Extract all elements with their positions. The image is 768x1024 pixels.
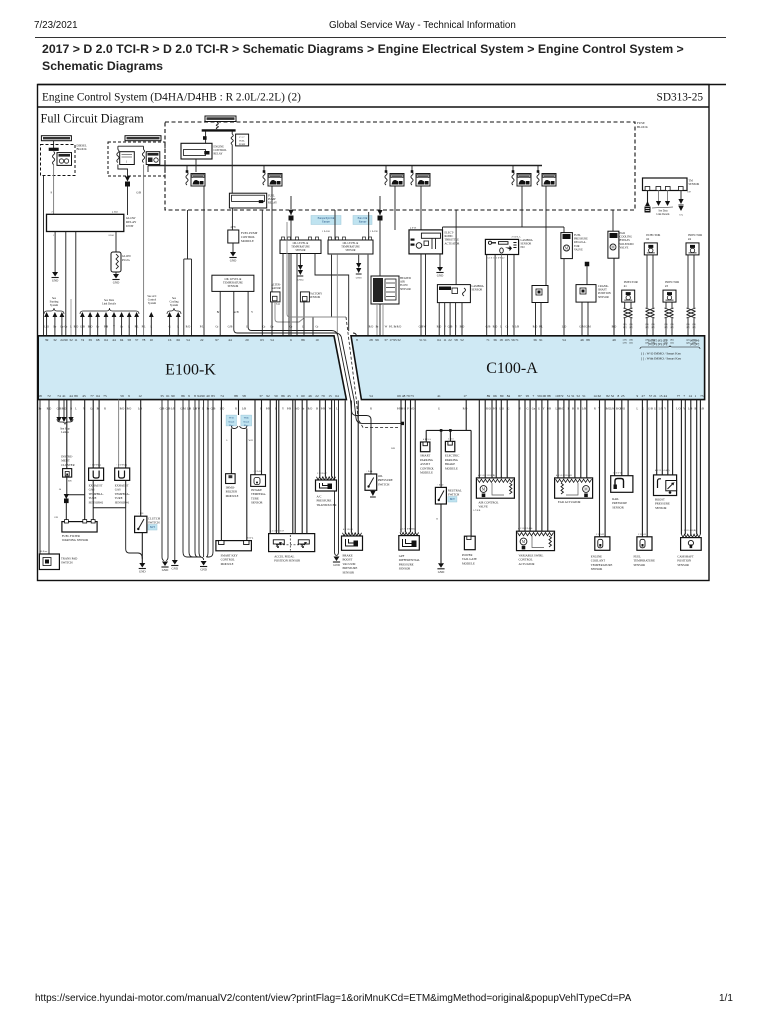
svg-text:10: 10 [315, 338, 319, 342]
oil pressure switch down arrow [372, 490, 374, 492]
svg-text:SOLENOID: SOLENOID [620, 243, 634, 246]
svg-text:NATOR: NATOR [271, 287, 280, 290]
wire with tag down [246, 429, 248, 541]
svg-text:C100-A: C100-A [486, 360, 538, 377]
electric parking brake module [445, 441, 454, 451]
wire bus left end down [147, 166, 149, 173]
svg-text:Gr: Gr [316, 326, 319, 329]
svg-text:52: 52 [577, 394, 581, 398]
svg-text:B: B [436, 518, 438, 521]
svg-text:90: 90 [201, 394, 205, 398]
svg-text:M/T: M/T [450, 498, 455, 501]
wire FR4 down [420, 186, 422, 230]
svg-text:Engine Control System (D4HA/D4: Engine Control System (D4HA/D4HB : R 2.0… [42, 92, 301, 104]
svg-text:P/B: P/B [104, 326, 108, 329]
wire pair FR2 down [271, 186, 273, 216]
svg-text:+ E-64: + E-64 [366, 471, 373, 473]
svg-text:9: 9 [637, 394, 639, 398]
svg-text:35: 35 [160, 394, 164, 398]
svg-text:Gr: Gr [96, 326, 99, 329]
svg-text:ELECT-: ELECT- [445, 232, 454, 235]
wire fpcm gnd [232, 243, 234, 252]
svg-text:61: 61 [166, 394, 170, 398]
svg-text:20: 20 [245, 338, 249, 342]
svg-text:Br: Br [54, 326, 57, 329]
svg-text:G/B: G/B [136, 192, 141, 195]
svg-text:LAMBDA: LAMBDA [521, 239, 533, 242]
svg-text:SENSOR: SENSOR [296, 249, 306, 252]
svg-text:#2: #2 [646, 237, 650, 241]
wire FR3 down [394, 186, 396, 230]
block A component [57, 153, 72, 166]
ground clutch [139, 563, 145, 568]
svg-text:39: 39 [45, 338, 49, 342]
svg-text:105: 105 [504, 338, 509, 342]
svg-text:MODULE: MODULE [420, 471, 433, 475]
wire oil1 pin b to bus [234, 291, 248, 333]
svg-text:[87]: [87] [692, 327, 696, 329]
svg-text:77: 77 [677, 394, 681, 398]
svg-text:Europe: Europe [359, 221, 367, 224]
svg-text:83: 83 [211, 394, 215, 398]
see data link details small [652, 207, 673, 208]
svg-text:94: 94 [120, 338, 124, 342]
oil level sensor box 1 [212, 275, 254, 291]
svg-text:See A/C: See A/C [147, 295, 156, 298]
svg-text:SENSOR: SENSOR [591, 567, 603, 571]
svg-text:1-7 B/B: 1-7 B/B [473, 510, 481, 512]
svg-text:72: 72 [560, 394, 564, 398]
gpf differential pressure sensor [400, 532, 418, 535]
junction node B1 [125, 182, 130, 187]
fuse B2 [142, 150, 144, 163]
svg-text:P/L: P/L [142, 326, 146, 329]
relay FR4 [416, 174, 430, 187]
svg-text:System: System [148, 302, 157, 305]
oil3 pin jog left [313, 255, 332, 335]
wires mid-left to grounds [161, 400, 163, 557]
relay FR3 [390, 174, 404, 187]
svg-text:58: 58 [128, 338, 132, 342]
svg-text:48: 48 [402, 394, 406, 398]
exhaust gas temperature sensor 2 [89, 468, 104, 480]
wire crank up [586, 266, 588, 285]
smart parking assist control module [421, 442, 430, 452]
svg-text:[32]: [32] [629, 343, 633, 345]
svg-text:TRANSDUCER: TRANSDUCER [317, 503, 337, 507]
svg-text:36: 36 [493, 338, 497, 342]
svg-text:B/O: B/O [620, 408, 625, 411]
relay FR1 [191, 174, 205, 187]
wire to trans pad switch pin2 [48, 400, 50, 554]
svg-text:B/O: B/O [460, 326, 465, 329]
svg-text:J4: J4 [59, 488, 62, 491]
wires to exhaust gas temp sensor 1 [118, 400, 120, 468]
svg-text:RELAY: RELAY [214, 153, 223, 156]
svg-text:MODULE: MODULE [221, 562, 234, 566]
svg-text:73: 73 [410, 394, 414, 398]
svg-text:Smart: Smart [243, 420, 249, 423]
svg-text:L: L [177, 326, 179, 329]
svg-text:45: 45 [82, 394, 86, 398]
svg-text:G/B: G/B [486, 326, 491, 329]
svg-text:Gr: Gr [263, 326, 266, 329]
svg-text:57: 57 [649, 394, 653, 398]
svg-text:7: 7 [533, 394, 535, 398]
svg-text:1 E-268: 1 E-268 [322, 230, 330, 233]
svg-text:GND: GND [200, 568, 207, 572]
svg-text:Full Circuit Diagram: Full Circuit Diagram [41, 111, 145, 125]
svg-text:R: R [104, 408, 106, 411]
wire wo tag down [230, 429, 232, 474]
svg-text:E07: E07 [688, 192, 692, 194]
wire link throttle to fprv [443, 226, 565, 228]
svg-text:GND: GND [139, 570, 146, 574]
svg-text:39: 39 [88, 338, 92, 342]
svg-text:(40) (94): (40) (94) [690, 340, 699, 343]
wires to fuel temp sensor [641, 400, 643, 537]
svg-text:VALVE: VALVE [574, 248, 583, 251]
svg-text:W: W [424, 326, 427, 329]
junction on horizontal run [401, 422, 404, 425]
svg-text:64: 64 [335, 394, 339, 398]
wire oil1 pin c to bus [248, 291, 262, 330]
svg-text:74: 74 [220, 394, 224, 398]
svg-text:1: 1 [53, 235, 54, 237]
wires to gpf sensor [400, 400, 402, 533]
svg-text:TEMPERATURE: TEMPERATURE [223, 282, 243, 285]
svg-text:64: 64 [437, 338, 441, 342]
svg-text:GND4: GND4 [297, 280, 304, 282]
europe variant tag 2 [353, 216, 372, 225]
svg-text:SENSOR: SENSOR [251, 501, 263, 505]
svg-text:W/O: W/O [229, 417, 234, 420]
svg-text:4 D41: 4 D41 [112, 211, 119, 214]
wires lambda2 pins to band [438, 303, 440, 335]
svg-text:L: L [500, 326, 502, 329]
engine coolant temperature sensor [595, 537, 610, 551]
wire FR5 down [521, 186, 523, 227]
svg-text:51: 51 [567, 394, 571, 398]
svg-text:11: 11 [443, 338, 447, 342]
junction block A bus bar [49, 148, 59, 151]
svg-text:See Stop: See Stop [60, 428, 70, 431]
block B top link [118, 145, 144, 147]
wire alternator jog [275, 302, 304, 322]
svg-text:4 FN: 4 FN [230, 226, 235, 229]
wire mid 71 [70, 299, 72, 335]
svg-text:POSITION SENSOR: POSITION SENSOR [274, 559, 300, 563]
svg-text:E13-4: E13-4 [248, 538, 254, 540]
block B component 1 [120, 152, 135, 165]
svg-text:[87]: [87] [629, 327, 633, 329]
svg-text:98: 98 [38, 394, 42, 398]
relay FR6 [542, 174, 556, 187]
svg-text:R/O: R/O [397, 326, 402, 329]
wires fps to band [535, 303, 537, 336]
exhaust gas temperature sensor 1 [115, 468, 130, 480]
svg-text:[87]: [87] [670, 327, 674, 329]
svg-text:R/O: R/O [493, 326, 498, 329]
wires to ac transducer [319, 400, 321, 477]
svg-text:82: 82 [606, 394, 610, 398]
svg-text:32: 32 [397, 338, 401, 342]
svg-text:NO: NO [521, 246, 525, 249]
glow relay unit [47, 214, 124, 231]
svg-text:7: 7 [683, 394, 685, 398]
svg-text:CRANK-: CRANK- [598, 285, 609, 288]
svg-text:58: 58 [454, 338, 458, 342]
junction node cluster [64, 494, 69, 499]
svg-text:[46] [97]: [46] [97] [690, 343, 699, 346]
mass air flow sensor block [371, 276, 399, 304]
svg-text:+ 1 E-87(L): + 1 E-87(L) [116, 464, 127, 467]
svg-text:L/B: L/B [138, 408, 142, 411]
svg-text:2-3 P/LA: 2-3 P/LA [512, 236, 521, 239]
wire 594 599 down [599, 400, 601, 537]
wire egt1 left bend to gnd [126, 508, 143, 559]
svg-text:44: 44 [228, 338, 232, 342]
connector E100-K [38, 336, 346, 400]
wire egt1 jog to fuel filter [92, 480, 94, 519]
svg-text:+ 1 E-87(L): + 1 E-87(L) [90, 464, 101, 467]
wire node to band 291 [290, 220, 292, 335]
neutral switch [435, 487, 446, 504]
svg-text:B/O: B/O [88, 326, 93, 329]
wire bus drop to pair FR1 [186, 166, 188, 173]
wire egrbp to band [613, 258, 615, 335]
svg-text:+ E61: + E61 [138, 513, 144, 515]
dashed junction block B [108, 142, 165, 176]
svg-text:80: 80 [500, 394, 504, 398]
parking modules feed bus [465, 400, 467, 431]
fuel pressure regulator valve [561, 233, 573, 259]
svg-text:(85): (85) [670, 339, 674, 342]
wire pair shield right [191, 259, 193, 335]
svg-text:L/B: L/B [242, 408, 246, 411]
svg-text:G7a: G7a [679, 214, 684, 217]
svg-text:CLUSTER: CLUSTER [61, 463, 74, 467]
svg-text:W/O: W/O [249, 439, 254, 442]
svg-text:Y: Y [664, 408, 666, 411]
svg-text:SENSOR: SENSOR [598, 296, 609, 299]
svg-text:SD313-25: SD313-25 [657, 92, 704, 104]
oil level sensor box 3 [329, 237, 332, 240]
wires to exhaust gas temp sensor 2 [92, 400, 94, 468]
svg-text:Gr: Gr [290, 326, 293, 329]
svg-text:FUEL: FUEL [574, 234, 581, 237]
wires to intake temp [254, 400, 256, 475]
wires oil2 pins to band [282, 254, 284, 336]
svg-text:R/O: R/O [486, 408, 491, 411]
svg-text:54: 54 [562, 338, 566, 342]
variable swirl control actuator [517, 531, 555, 550]
battery feed label bar [205, 116, 236, 122]
wires crank to band [581, 302, 583, 335]
svg-text:MODULE: MODULE [241, 239, 254, 243]
svg-text:UNIT: UNIT [126, 224, 134, 228]
svg-text:G/B: G/B [80, 326, 85, 329]
wire tm pin2 arrow [658, 191, 660, 202]
svg-text:75: 75 [103, 394, 107, 398]
svg-text:B/O: B/O [127, 408, 132, 411]
svg-text:[36] [95] [95] [23]: [36] [95] [95] [23] [648, 343, 667, 346]
svg-text:1 E13: 1 E13 [448, 438, 454, 440]
wire glow to plug [115, 232, 117, 253]
engine control relay [181, 143, 212, 159]
svg-text:(36): (36) [686, 323, 690, 326]
wire node to fuel filter sensor [65, 503, 67, 520]
svg-text:99: 99 [375, 338, 379, 342]
svg-text:FLOW: FLOW [400, 284, 408, 287]
svg-text:15: 15 [328, 394, 332, 398]
svg-text:90: 90 [171, 394, 175, 398]
wire to power tail gate [470, 430, 472, 536]
svg-text:9: 9 [51, 192, 53, 195]
wire 272 to band [271, 216, 273, 335]
wires to boost pressure sensor [656, 400, 658, 475]
svg-text:BYPASS: BYPASS [620, 239, 631, 242]
svg-text:14: 14 [688, 394, 692, 398]
wire oil1 pin a [219, 291, 221, 335]
fuse fuel pump [231, 134, 233, 145]
svg-text:MODULE: MODULE [226, 494, 239, 498]
electric throttle actuator [409, 230, 443, 254]
wire from band to smart key tags [238, 400, 240, 415]
fuel pump relay [229, 193, 266, 208]
wire gray jog into gap [287, 222, 346, 317]
svg-text:SENSOR: SENSOR [472, 289, 483, 292]
svg-text:A 3 6 1 5 2 E-F/L2: A 3 6 1 5 2 E-F/L2 [487, 257, 505, 260]
svg-text:L/O: L/O [220, 408, 225, 411]
diagonal wire continuation below band [351, 400, 372, 474]
svg-text:E100-K: E100-K [165, 362, 216, 379]
wires long cluster to ground [182, 400, 184, 552]
svg-text:R/O: R/O [369, 326, 374, 329]
svg-text:Smart: Smart [228, 420, 234, 423]
svg-text:21: 21 [653, 394, 657, 398]
battery bus bar [202, 129, 236, 131]
wires lambda1 pins to band [486, 255, 488, 336]
wire fuel pump fuse down [231, 145, 233, 194]
svg-text:PRESSURE: PRESSURE [574, 238, 588, 241]
svg-text:4 3 5 6 1 2 E17: 4 3 5 6 1 2 E17 [270, 531, 285, 533]
title bar top rule extension [38, 84, 727, 86]
svg-text:G/B: G/B [648, 408, 653, 411]
hazard switch [39, 554, 59, 570]
svg-text:GND: GND [172, 567, 179, 571]
wire fprv to band [563, 259, 565, 335]
wires 334-338 to ground [334, 400, 336, 552]
svg-text:GND: GND [230, 259, 237, 263]
svg-text:#4: #4 [688, 237, 692, 241]
svg-text:SWITCH: SWITCH [61, 561, 73, 565]
svg-text:44: 44 [69, 394, 73, 398]
wires injector 4 down with coil [687, 255, 689, 308]
svg-text:With: With [244, 417, 250, 420]
svg-text:P/L: P/L [539, 326, 543, 329]
svg-text:G: G [526, 408, 528, 411]
svg-text:SENSOR: SENSOR [634, 563, 646, 567]
svg-text:18: 18 [499, 338, 503, 342]
svg-text:88: 88 [547, 394, 551, 398]
svg-text:GND: GND [113, 281, 120, 285]
svg-text:6: 6 [290, 338, 292, 342]
svg-text:Link Details: Link Details [657, 213, 670, 216]
svg-text:32: 32 [69, 338, 73, 342]
svg-text:Gy: Gy [532, 408, 536, 411]
oil3 top feeds [334, 210, 336, 239]
wire single gnd 174 [174, 400, 176, 560]
svg-text:89: 89 [487, 394, 491, 398]
svg-text:+ 1 E-61: + 1 E-61 [253, 471, 262, 473]
svg-text:4 E-36: 4 E-36 [410, 227, 417, 229]
svg-text:72: 72 [47, 394, 51, 398]
svg-text:54: 54 [270, 338, 274, 342]
svg-text:2: 2 [51, 211, 53, 214]
svg-text:[29]: [29] [623, 343, 627, 345]
svg-text:System: System [50, 304, 59, 307]
svg-text:L/B: L/B [688, 408, 692, 411]
breadcrumb [42, 41, 702, 75]
egr cooling bypass solenoid valve [608, 231, 619, 258]
svg-text:89: 89 [74, 394, 78, 398]
svg-text:P/L: P/L [200, 326, 204, 329]
diagonal wires through band gap [338, 336, 351, 400]
svg-text:Europe/Syn 6 &: Europe/Syn 6 & [318, 217, 335, 220]
wire to smart key pin1 [220, 400, 222, 541]
svg-text:17: 17 [463, 394, 467, 398]
svg-text:SENSOR: SENSOR [228, 285, 239, 288]
svg-text:GND: GND [333, 563, 340, 567]
svg-text:G: G [302, 326, 304, 329]
air control valve [476, 478, 514, 498]
tm sensor top right [643, 178, 688, 191]
wire bus drop to pair FR4 [411, 166, 413, 173]
wires injector 3 down with coil [665, 302, 667, 308]
svg-text:See: See [172, 297, 177, 300]
europe variant tag 1 [311, 216, 341, 225]
svg-text:Cooling: Cooling [169, 301, 179, 304]
svg-text:B: B [316, 408, 318, 411]
svg-text:71: 71 [515, 338, 519, 342]
svg-text:[87]: [87] [651, 327, 655, 329]
wire to instrument cluster [66, 400, 68, 469]
svg-text:COOLING: COOLING [620, 236, 633, 239]
svg-text:ACTUATOR: ACTUATOR [519, 562, 535, 566]
wire cluster down branch [66, 477, 68, 495]
svg-text:SWITCH: SWITCH [148, 520, 160, 524]
svg-text:Euro 6 &: Euro 6 & [358, 217, 368, 220]
wire B1 bend to node [118, 165, 128, 180]
svg-text:R: R [235, 408, 237, 411]
svg-text:PLUG: PLUG [122, 258, 131, 262]
svg-text:37: 37 [384, 338, 388, 342]
svg-text:SENSOR#1: SENSOR#1 [115, 500, 130, 504]
wire to clutch switch [140, 400, 142, 517]
svg-text:SENSOR: SENSOR [689, 183, 700, 186]
svg-text:68: 68 [96, 338, 100, 342]
svg-text:P/L: P/L [135, 326, 139, 329]
svg-text:(39): (39) [623, 339, 627, 342]
svg-text:4 E13-A: 4 E13-A [423, 438, 431, 441]
svg-text:L/B: L/B [582, 408, 586, 411]
svg-text:TM: TM [689, 180, 694, 183]
svg-text:41: 41 [437, 394, 441, 398]
wire long 262 to band [261, 210, 263, 336]
power tail gate module [464, 536, 475, 550]
svg-text:SENSOR#2: SENSOR#2 [89, 500, 104, 504]
